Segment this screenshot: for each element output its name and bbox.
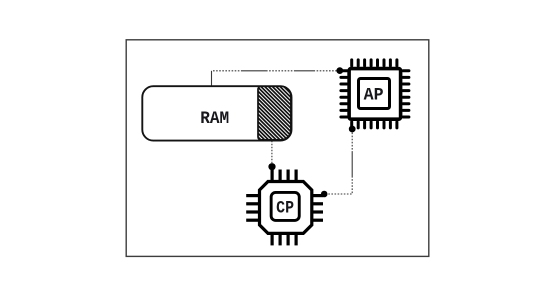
svg-text:CP: CP (276, 198, 294, 218)
svg-text:RAM: RAM (200, 109, 229, 129)
svg-text:AP: AP (364, 86, 384, 105)
